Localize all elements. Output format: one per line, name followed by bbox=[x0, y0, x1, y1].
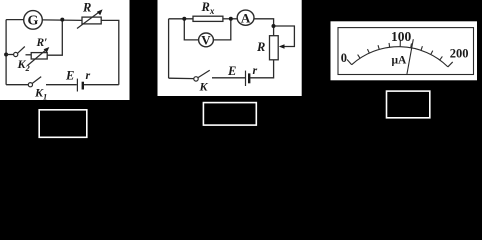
switch K bbox=[194, 70, 210, 81]
meter inner border bbox=[338, 28, 474, 75]
wire: bottom-left corner to switch K1 bbox=[6, 84, 28, 86]
wire: battery to bottom-right corner, up to R box bbox=[250, 60, 273, 78]
node: wiper junction on right wire bbox=[272, 24, 276, 28]
wire: V branch (down, across to voltmeter) bbox=[184, 19, 198, 40]
node: junction on left wire bbox=[4, 53, 8, 57]
node: V branch left junction bbox=[182, 17, 186, 21]
wire: galvanometer to resistor R bbox=[42, 19, 82, 22]
wire: battery to bottom-right corner bbox=[84, 84, 119, 86]
svg-text:G: G bbox=[28, 14, 39, 29]
switch K1 bbox=[28, 77, 41, 87]
wire: switch K to battery bbox=[212, 77, 245, 79]
panel 3 background (meter) bbox=[331, 21, 478, 80]
wiper arrowhead bbox=[279, 44, 285, 48]
meter tick marks bbox=[347, 40, 453, 67]
svg-text:r: r bbox=[86, 68, 91, 82]
meter scale arc bbox=[352, 47, 448, 67]
resistor R (rheostat box) bbox=[77, 9, 103, 28]
wire: junction to switch K2 bbox=[6, 54, 13, 56]
svg-text:R′: R′ bbox=[36, 37, 48, 49]
svg-text:A: A bbox=[241, 10, 251, 25]
svg-text:V: V bbox=[201, 32, 211, 47]
answer box 1 bbox=[39, 110, 87, 138]
svg-text:100: 100 bbox=[391, 29, 412, 44]
rheostat R box (vertical) bbox=[270, 36, 279, 60]
wire: voltmeter to right riser of V branch bbox=[213, 19, 231, 40]
battery cell: long plate (middle) bbox=[245, 71, 247, 86]
wire: resistor R to top-right corner, down right side bbox=[101, 20, 119, 84]
svg-text:K: K bbox=[199, 80, 209, 94]
node: V branch right junction bbox=[229, 17, 233, 21]
wire: ammeter to top-right corner, down to R box bbox=[254, 19, 274, 36]
resistor Rx box bbox=[193, 16, 223, 21]
battery cell: short plate bbox=[82, 82, 84, 90]
answer box 2 bbox=[203, 103, 256, 126]
svg-text:μA: μA bbox=[392, 55, 408, 67]
svg-text:0: 0 bbox=[341, 51, 347, 65]
battery cell: long plate bbox=[76, 79, 78, 92]
node: junction on top wire bbox=[60, 18, 64, 22]
wire: wiper branch of rheostat R bbox=[274, 26, 295, 47]
wire: left side vertical bbox=[5, 20, 7, 85]
svg-text:200: 200 bbox=[450, 46, 469, 60]
wire: switch K2 to resistor R' bbox=[26, 54, 32, 56]
svg-text:r: r bbox=[253, 63, 258, 77]
svg-text:R: R bbox=[82, 1, 91, 15]
svg-text:E: E bbox=[65, 69, 74, 83]
panel 2 background bbox=[158, 0, 302, 96]
wire: top-left corner to resistor Rx bbox=[169, 18, 193, 20]
wire: resistor R' to vertical connector, up to top wire bbox=[47, 20, 62, 56]
wire: bottom-left corner to switch K bbox=[169, 77, 194, 79]
resistor R' (rheostat box) bbox=[28, 47, 50, 66]
wire: switch K1 to battery bbox=[46, 84, 77, 86]
voltmeter V bbox=[199, 32, 214, 47]
galvanometer G bbox=[24, 11, 43, 30]
battery cell: short plate (middle) bbox=[248, 73, 250, 83]
wire: left side vertical bbox=[168, 19, 170, 78]
answer box 3 bbox=[387, 91, 430, 118]
switch K2 bbox=[14, 47, 25, 57]
svg-text:R: R bbox=[256, 40, 265, 54]
ammeter A bbox=[237, 10, 254, 25]
wire: top-left to galvanometer bbox=[6, 19, 24, 21]
svg-text:E: E bbox=[227, 64, 236, 78]
meter needle bbox=[407, 39, 413, 74]
panel 1 background bbox=[0, 0, 130, 100]
wire: resistor Rx to ammeter bbox=[223, 18, 237, 20]
